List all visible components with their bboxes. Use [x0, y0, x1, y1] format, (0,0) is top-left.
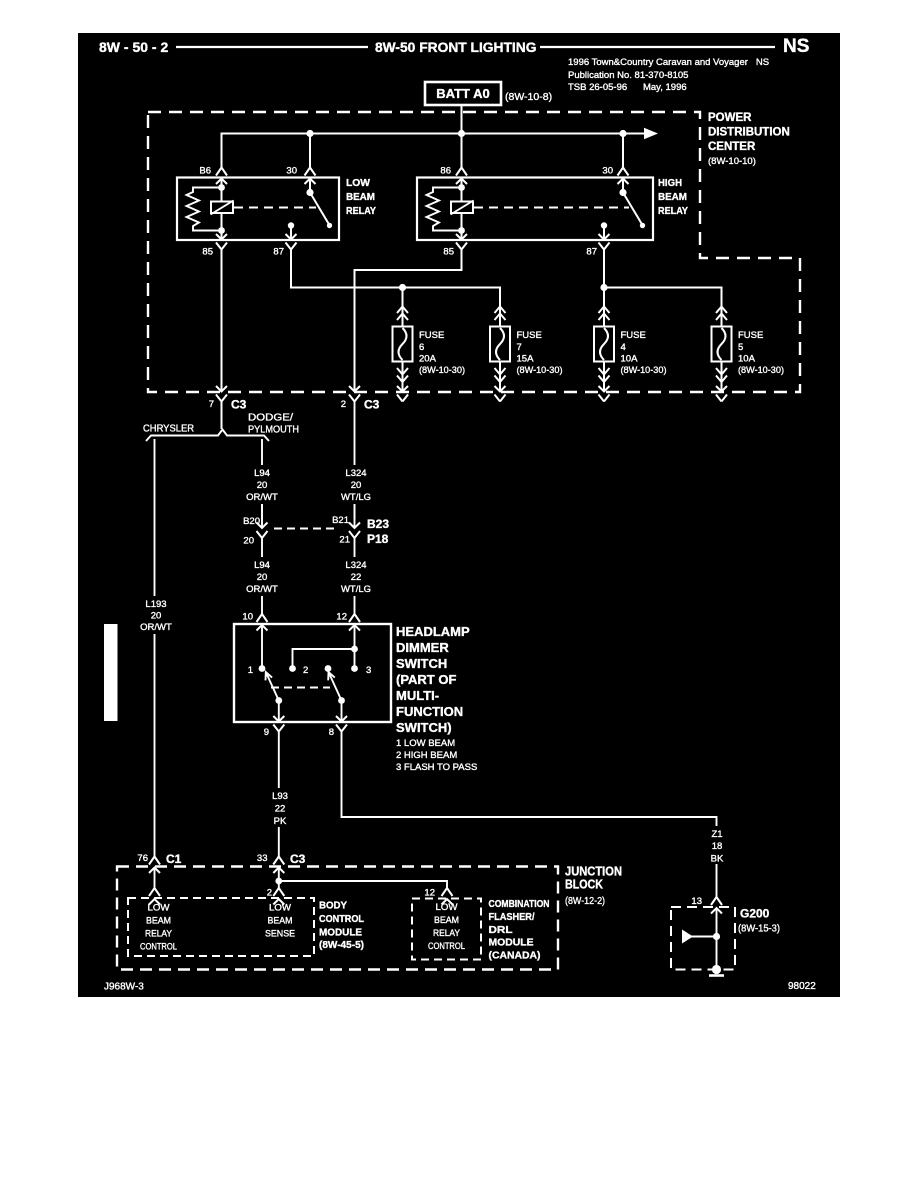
high relay 87 contact: [601, 222, 607, 228]
wire L94 upper: [261, 439, 263, 519]
terminal 30 high connector: [618, 168, 629, 185]
high relay switch blade: [623, 193, 642, 224]
high relay coil branch wire: [461, 179, 463, 231]
svg-text:L94: L94: [254, 560, 270, 571]
high relay coil: [451, 202, 473, 214]
high relay link dashed: [474, 207, 629, 209]
svg-text:WT/LG: WT/LG: [341, 492, 371, 503]
battery feed BATT A0 box: [425, 82, 501, 105]
svg-text:WT/LG: WT/LG: [341, 584, 371, 595]
bus arrowhead: [644, 128, 658, 139]
svg-text:SWITCH: SWITCH: [396, 656, 447, 671]
high relay switch pivot: [619, 189, 626, 196]
svg-text:30: 30: [286, 166, 297, 177]
terminal 87 low connector: [286, 234, 297, 250]
wire low beam sense branch: [279, 868, 447, 889]
svg-text:SWITCH): SWITCH): [396, 720, 452, 735]
L94 lower label: [243, 557, 281, 596]
ground symbol: [716, 908, 718, 970]
wire to DRL module: [442, 888, 453, 905]
pin 10 connector: [257, 614, 268, 631]
wire pin12 to contacts 2,3: [293, 625, 355, 669]
wire L94 lower: [261, 538, 263, 614]
svg-text:18: 18: [712, 841, 723, 852]
L324 lower label: [335, 557, 377, 596]
fuse 4: [594, 307, 614, 392]
svg-text:85: 85: [443, 247, 454, 258]
wire bus to low relay 30: [309, 134, 311, 168]
svg-text:FUSE: FUSE: [738, 330, 763, 341]
header rule right: [540, 46, 775, 48]
terminal 85 low connector: [216, 234, 227, 250]
svg-text:OR/WT: OR/WT: [246, 584, 278, 595]
svg-text:2: 2: [267, 888, 272, 899]
wire fuse6 drop: [402, 288, 404, 327]
connector C1 cavity 76: [149, 857, 160, 874]
svg-text:87: 87: [273, 247, 284, 258]
svg-text:BLOCK: BLOCK: [565, 877, 604, 892]
svg-text:LOW: LOW: [346, 177, 370, 189]
contact 2b: [325, 665, 332, 672]
svg-text:RELAY: RELAY: [433, 928, 461, 939]
svg-text:20: 20: [351, 480, 362, 491]
low relay junction dot top: [218, 184, 225, 191]
svg-text:PYLMOUTH: PYLMOUTH: [248, 424, 299, 436]
svg-text:6: 6: [419, 342, 424, 353]
svg-text:(8W-15-3): (8W-15-3): [738, 924, 780, 935]
bus wire: [222, 134, 645, 168]
power distribution center dashed border: [148, 112, 800, 392]
svg-text:(8W-10-10): (8W-10-10): [708, 156, 756, 167]
svg-text:9: 9: [264, 727, 269, 738]
low relay coil branch wire: [221, 179, 223, 231]
svg-text:2: 2: [341, 399, 346, 410]
junction dot bus/high30: [619, 130, 626, 137]
svg-text:FUNCTION: FUNCTION: [396, 704, 463, 719]
svg-text:TSB 26-05-96 May, 1996: TSB 26-05-96 May, 1996: [568, 82, 687, 93]
svg-text:FUSE: FUSE: [419, 330, 444, 341]
Z1 label: [705, 826, 729, 864]
svg-text:1 LOW BEAM: 1 LOW BEAM: [396, 738, 455, 749]
svg-text:BEAM: BEAM: [658, 191, 687, 203]
svg-text:FUSE: FUSE: [621, 330, 646, 341]
svg-text:5: 5: [738, 342, 743, 353]
L324 upper label: [335, 465, 377, 504]
contact 1: [259, 665, 266, 672]
svg-text:1996 Town&Country Caravan and: 1996 Town&Country Caravan and Voyager NS: [568, 57, 769, 68]
svg-text:LOW: LOW: [436, 902, 458, 913]
terminal 85 high connector: [456, 234, 467, 250]
svg-text:CONTROL: CONTROL: [319, 913, 364, 925]
svg-text:13: 13: [691, 896, 702, 907]
wire L193 upper: [154, 439, 156, 596]
svg-text:33: 33: [257, 853, 268, 864]
svg-text:7: 7: [209, 399, 214, 410]
svg-text:1: 1: [248, 665, 253, 676]
ground G200 dashed box: [671, 907, 735, 970]
junction block dashed box: [117, 867, 558, 970]
svg-text:CONTROL: CONTROL: [428, 941, 465, 952]
svg-text:7: 7: [517, 342, 522, 353]
svg-text:HEADLAMP: HEADLAMP: [396, 624, 470, 639]
blade 2: [338, 697, 345, 704]
connector C3 cavity 33: [273, 857, 284, 874]
pin 9: [278, 701, 280, 722]
contact 3: [351, 665, 358, 672]
svg-text:20: 20: [257, 480, 268, 491]
svg-text:20A: 20A: [419, 354, 437, 365]
junction dot high87/fuse4: [600, 284, 607, 291]
low relay resistor: [187, 188, 222, 231]
low relay coil: [211, 202, 233, 214]
svg-text:B6: B6: [199, 166, 211, 177]
svg-text:SENSE: SENSE: [265, 929, 295, 940]
svg-text:20: 20: [243, 536, 254, 547]
svg-text:RELAY: RELAY: [346, 205, 376, 217]
svg-text:22: 22: [351, 572, 362, 583]
low beam relay control box: [128, 898, 314, 956]
L193 label: [134, 596, 179, 634]
svg-text:21: 21: [339, 535, 350, 546]
wire C3-7 to split: [221, 402, 223, 430]
svg-text:LOW: LOW: [148, 903, 170, 914]
svg-text:2: 2: [303, 665, 308, 676]
svg-text:10A: 10A: [621, 354, 639, 365]
terminal 86 connector: [456, 168, 467, 185]
wire high87 to fuses 4,5: [604, 250, 722, 327]
low relay junction dot bottom: [218, 227, 225, 234]
wire L324 lower: [354, 538, 356, 614]
header rule left: [176, 46, 368, 48]
svg-text:B21: B21: [332, 515, 349, 526]
contact 2: [289, 665, 296, 672]
pin 8: [341, 701, 343, 722]
low relay switch blade: [310, 193, 329, 224]
svg-text:J968W-3: J968W-3: [104, 982, 144, 993]
svg-text:30: 30: [602, 166, 613, 177]
svg-text:4: 4: [621, 342, 626, 353]
svg-text:(8W-10-30): (8W-10-30): [621, 365, 667, 376]
svg-text:BATT A0: BATT A0: [436, 86, 489, 101]
svg-text:RELAY: RELAY: [145, 929, 173, 940]
svg-text:(8W-45-5): (8W-45-5): [319, 939, 364, 951]
svg-text:L324: L324: [345, 468, 366, 479]
svg-text:BEAM: BEAM: [346, 191, 375, 203]
terminal 87 high connector: [599, 234, 610, 250]
low relay 87 contact: [288, 222, 294, 228]
svg-text:L324: L324: [345, 560, 366, 571]
svg-text:C1: C1: [166, 852, 182, 866]
junction dot bus/batt: [458, 130, 465, 137]
svg-text:C3: C3: [231, 398, 247, 412]
svg-text:FLASHER/: FLASHER/: [489, 911, 535, 923]
wire bus to high relay 30: [622, 134, 624, 168]
svg-text:P18: P18: [367, 532, 389, 546]
svg-text:L93: L93: [272, 791, 288, 802]
blade 1: [275, 697, 282, 704]
svg-text:FUSE: FUSE: [517, 330, 542, 341]
svg-text:CHRYSLER: CHRYSLER: [143, 423, 194, 435]
svg-text:(PART OF: (PART OF: [396, 672, 456, 687]
svg-text:Z1: Z1: [711, 829, 722, 840]
svg-text:22: 22: [275, 804, 286, 815]
svg-text:(8W-10-30): (8W-10-30): [419, 365, 465, 376]
svg-text:OR/WT: OR/WT: [246, 492, 278, 503]
inline connector B23/P18 right half: [354, 504, 356, 528]
inline connector dashed line: [274, 528, 336, 530]
connector C3 cavity 2: [349, 386, 360, 402]
svg-text:HIGH: HIGH: [658, 177, 682, 189]
svg-text:POWER: POWER: [708, 112, 752, 124]
high relay junction dot bottom: [458, 227, 465, 234]
ground G200 connector 13: [711, 897, 722, 914]
svg-text:3 FLASH TO PASS: 3 FLASH TO PASS: [396, 762, 477, 773]
high relay junction dot top: [458, 184, 465, 191]
svg-text:2 HIGH BEAM: 2 HIGH BEAM: [396, 750, 457, 761]
svg-text:C3: C3: [290, 852, 306, 866]
junction dot fuse6 tap: [399, 284, 406, 291]
svg-text:(8W-10-30): (8W-10-30): [517, 365, 563, 376]
svg-text:NS: NS: [783, 36, 809, 57]
svg-text:87: 87: [586, 247, 597, 258]
inline connector B23/P18 left half: [261, 504, 263, 528]
low beam relay box: [177, 178, 339, 241]
svg-text:76: 76: [137, 853, 148, 864]
blade link dashed: [271, 687, 330, 689]
low relay switch pivot: [306, 189, 313, 196]
svg-text:PK: PK: [274, 816, 287, 827]
svg-text:CONTROL: CONTROL: [140, 942, 177, 953]
svg-text:10A: 10A: [738, 354, 756, 365]
pin 12 connector: [349, 614, 360, 631]
svg-text:86: 86: [440, 166, 451, 177]
wire Z1 from pin 8: [342, 732, 717, 898]
svg-text:12: 12: [424, 888, 435, 899]
svg-text:(8W-10-30): (8W-10-30): [738, 365, 784, 376]
junction dot pin12 branch: [351, 646, 358, 653]
svg-text:C3: C3: [364, 398, 380, 412]
svg-text:98022: 98022: [788, 981, 816, 992]
svg-text:8W-50 FRONT LIGHTING: 8W-50 FRONT LIGHTING: [375, 40, 536, 55]
low relay link dashed: [234, 207, 316, 209]
svg-text:DODGE/: DODGE/: [248, 412, 293, 424]
svg-text:BK: BK: [711, 854, 724, 865]
wire L93: [278, 732, 280, 857]
svg-text:3: 3: [366, 665, 371, 676]
svg-text:CENTER: CENTER: [708, 141, 756, 153]
svg-text:12: 12: [336, 612, 347, 623]
high beam relay box: [417, 178, 653, 241]
junction dot bus/low30: [306, 130, 313, 137]
svg-text:85: 85: [202, 247, 213, 258]
svg-text:LOW: LOW: [269, 903, 291, 914]
terminal 30 low connector: [305, 168, 316, 185]
wire L193 lower: [154, 632, 156, 857]
wire pin10 to contact 1: [261, 625, 263, 669]
wire L324 upper: [354, 402, 356, 520]
high relay resistor: [427, 188, 462, 231]
svg-text:(CANADA): (CANADA): [489, 950, 541, 962]
fuse 5: [712, 307, 732, 392]
svg-text:BEAM: BEAM: [146, 916, 171, 927]
wire high85 to C3 cavity 2: [355, 250, 462, 392]
wire low85 to C3 cavity 7: [221, 250, 223, 392]
svg-text:DIMMER: DIMMER: [396, 640, 449, 655]
svg-text:10: 10: [242, 612, 253, 623]
svg-text:Publication No. 81-370-8105: Publication No. 81-370-8105: [568, 70, 688, 81]
svg-text:8W - 50 - 2: 8W - 50 - 2: [99, 39, 168, 55]
white scan bar: [104, 624, 118, 721]
svg-text:G200: G200: [740, 907, 770, 921]
svg-text:BEAM: BEAM: [434, 915, 459, 926]
svg-text:(8W-12-2): (8W-12-2): [565, 896, 605, 907]
terminal B6 connector: [216, 168, 227, 185]
L93 label: [265, 788, 294, 827]
svg-text:20: 20: [151, 611, 162, 622]
svg-text:L94: L94: [254, 468, 270, 479]
svg-text:B20: B20: [243, 516, 260, 527]
svg-text:MODULE: MODULE: [319, 927, 362, 939]
svg-text:B23: B23: [367, 517, 389, 531]
svg-text:OR/WT: OR/WT: [140, 622, 172, 633]
connector C3 cavity 7: [216, 386, 227, 402]
svg-text:8: 8: [329, 727, 334, 738]
svg-text:20: 20: [257, 572, 268, 583]
svg-text:15A: 15A: [517, 354, 535, 365]
svg-text:DISTRIBUTION: DISTRIBUTION: [708, 127, 790, 139]
svg-text:BEAM: BEAM: [268, 916, 293, 927]
low beam relay control box 2: [412, 899, 481, 960]
svg-text:MULTI-: MULTI-: [396, 688, 439, 703]
fuse 6: [393, 307, 413, 392]
svg-text:(8W-10-8): (8W-10-8): [505, 91, 552, 103]
svg-text:DRL: DRL: [489, 924, 514, 936]
svg-text:L193: L193: [145, 599, 166, 610]
L94 upper label: [243, 465, 281, 504]
svg-text:RELAY: RELAY: [658, 205, 688, 217]
svg-text:BODY: BODY: [319, 900, 347, 912]
headlamp dimmer switch box: [234, 624, 391, 722]
brand split bracket: [146, 430, 269, 442]
wire into low beam relay control: [154, 868, 156, 889]
wire low87 to fuses 6,7: [291, 250, 500, 327]
svg-text:MODULE: MODULE: [489, 937, 534, 949]
fuse 7: [490, 307, 510, 392]
svg-text:COMBINATION: COMBINATION: [489, 898, 550, 910]
wire from BATT A0 down: [461, 105, 463, 168]
